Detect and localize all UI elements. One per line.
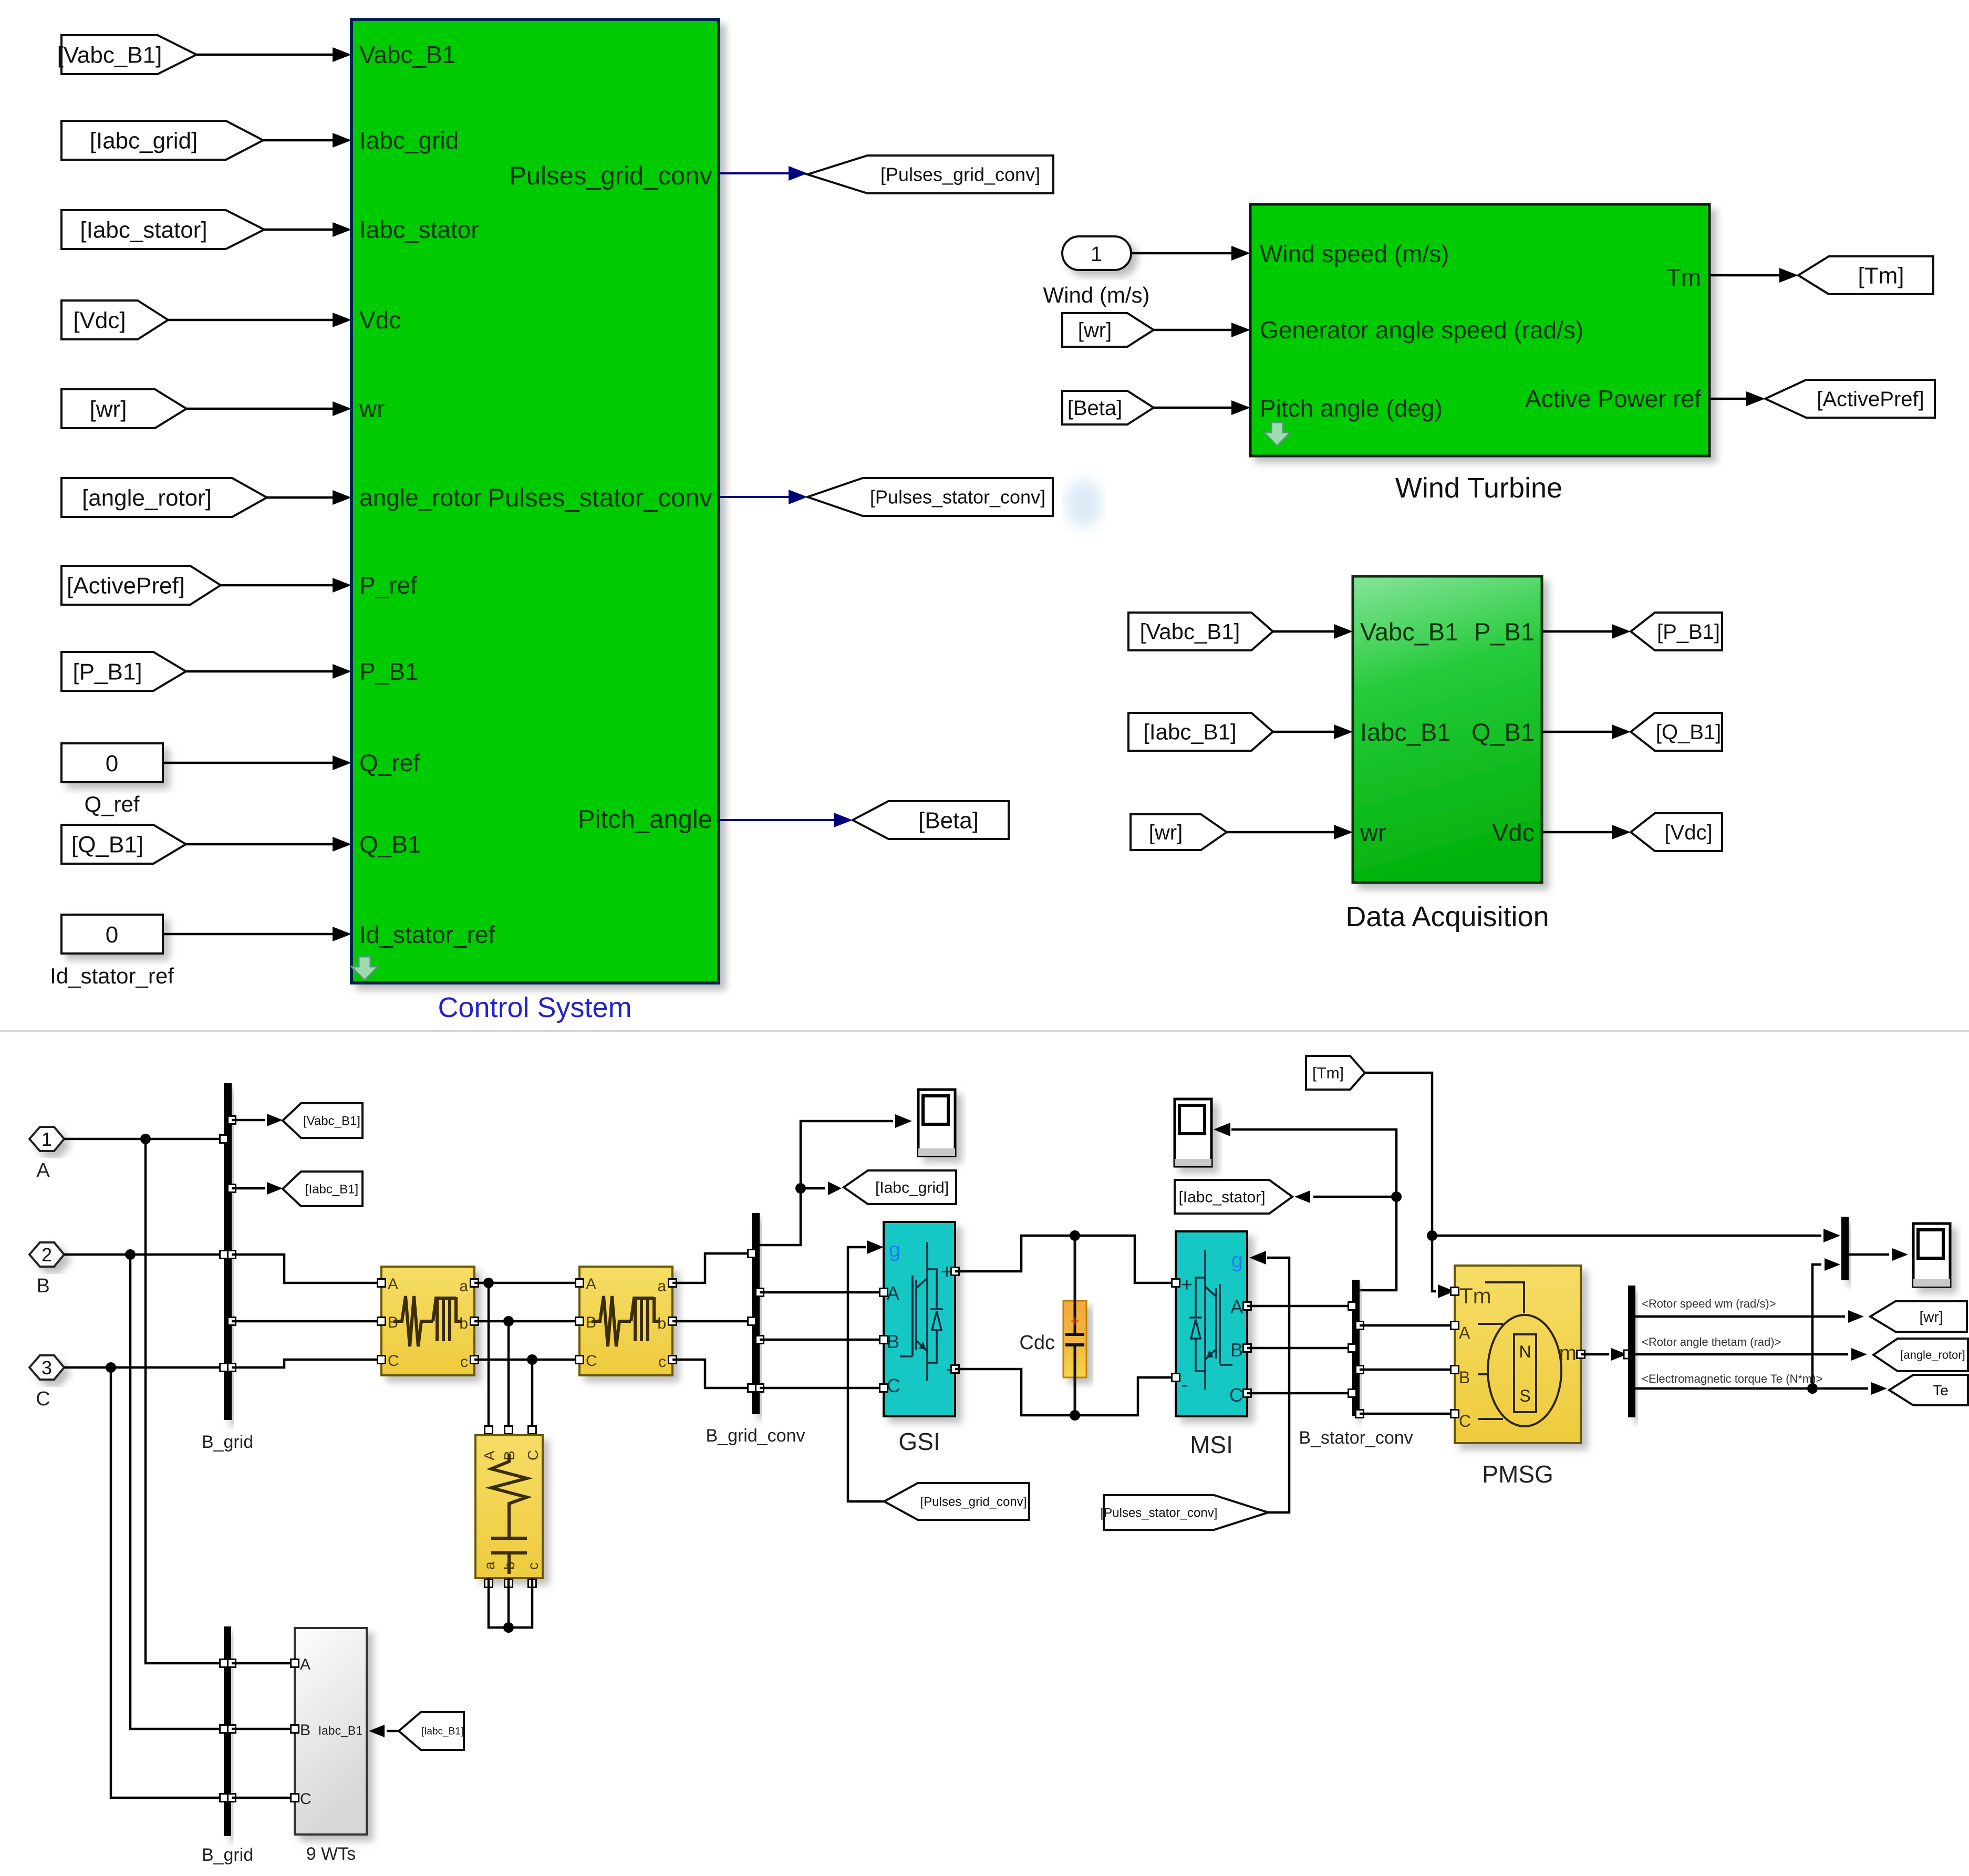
wire [Vdc] to Control System	[168, 319, 333, 322]
svg-text:C: C	[1459, 1412, 1471, 1431]
goto tag [Vabc_B1] small	[283, 1103, 362, 1138]
wire a down to filter	[488, 1283, 490, 1426]
port connector	[485, 1580, 493, 1588]
from tag [Beta] to Wind Turbine	[1062, 391, 1154, 424]
port connector	[220, 1251, 228, 1259]
port connector	[1451, 1322, 1459, 1330]
port connector	[748, 1318, 756, 1325]
port connector	[1624, 1350, 1632, 1359]
wire [Beta] to Wind Turbine	[1154, 407, 1231, 409]
port connector	[669, 1356, 677, 1364]
wire bus to PMSG B	[1360, 1369, 1455, 1371]
svg-text:0: 0	[106, 751, 118, 776]
svg-text:wr: wr	[359, 395, 385, 422]
svg-text:9 WTs: 9 WTs	[306, 1844, 356, 1864]
port connector	[1451, 1366, 1459, 1374]
svg-text:[wr]: [wr]	[1919, 1309, 1943, 1325]
subsystem block Wind Turbine	[1250, 204, 1709, 456]
wire meas to [Iabc_grid]	[801, 1187, 825, 1190]
svg-text:[Vabc_B1]: [Vabc_B1]	[1140, 619, 1240, 644]
wire [Pulses_stator_conv] to MSI g	[1267, 1258, 1289, 1512]
port connector	[220, 1794, 228, 1802]
svg-text:[Beta]: [Beta]	[918, 807, 979, 833]
wire meas to [Iabc_stator]	[1313, 1196, 1396, 1198]
wire b down to filter	[507, 1321, 510, 1426]
svg-text:Iabc_B1: Iabc_B1	[318, 1724, 362, 1737]
port connector	[378, 1356, 386, 1364]
from tag [Q_B1]	[61, 825, 186, 864]
goto tag [Iabc_B1] small	[283, 1172, 362, 1206]
port connector	[528, 1426, 536, 1434]
wire junction	[125, 1249, 136, 1260]
svg-text:[Tm]: [Tm]	[1312, 1065, 1344, 1082]
port connector	[951, 1268, 959, 1276]
wire junction	[795, 1183, 806, 1194]
wire bus to PMSG A	[1360, 1324, 1455, 1327]
goto tag Te	[1889, 1375, 1968, 1405]
svg-text:c: c	[460, 1353, 468, 1371]
wire T2 b to B_grid_conv	[672, 1320, 752, 1323]
inport 2 (B)	[29, 1242, 64, 1267]
port connector	[505, 1426, 513, 1434]
wire bus to 9WTs B	[232, 1728, 295, 1730]
subsystem block 9 WTs	[295, 1628, 367, 1834]
svg-text:Id_stator_ref: Id_stator_ref	[359, 921, 495, 948]
wire c down to filter	[531, 1360, 534, 1426]
wire [Pulses_grid_conv] to GSI g	[848, 1247, 884, 1501]
port connector	[748, 1250, 756, 1258]
from tag [P_B1]	[61, 652, 186, 691]
wire [Vabc_B1] to Data Acquisition	[1273, 630, 1335, 633]
wire GSI - to MSI -	[955, 1369, 1176, 1415]
wire [Iabc_B1] to 9WTs	[387, 1730, 399, 1733]
svg-text:Pulses_grid_conv: Pulses_grid_conv	[509, 162, 712, 190]
svg-text:Te: Te	[1933, 1382, 1949, 1398]
svg-text:1: 1	[42, 1128, 52, 1150]
svg-text:a: a	[657, 1278, 666, 1295]
inport 1 (A)	[29, 1127, 64, 1151]
wire B_grid_conv to GSI C	[760, 1387, 884, 1390]
port connector	[1356, 1410, 1364, 1418]
port connector	[220, 1135, 228, 1143]
goto tag [Q_B1]	[1631, 713, 1722, 751]
svg-text:A: A	[1459, 1323, 1470, 1342]
svg-text:P_ref: P_ref	[359, 572, 417, 599]
port connector	[1356, 1366, 1364, 1374]
svg-text:[Iabc_grid]: [Iabc_grid]	[875, 1179, 949, 1197]
svg-text:a: a	[481, 1561, 498, 1570]
svg-text:b: b	[657, 1315, 666, 1332]
goto tag [P_B1]	[1631, 613, 1722, 650]
svg-text:[Iabc_B1]: [Iabc_B1]	[305, 1182, 358, 1196]
svg-text:<Electromagnetic torque Te (N*: <Electromagnetic torque Te (N*m)>	[1642, 1372, 1822, 1385]
wire bus to PMSG C	[1360, 1413, 1455, 1415]
wire junction	[106, 1362, 116, 1373]
wire Q_B1 to goto	[1542, 731, 1612, 733]
svg-text:Generator angle speed (rad/s): Generator angle speed (rad/s)	[1260, 316, 1583, 344]
port connector	[669, 1318, 677, 1325]
goto tag [angle_rotor]	[1873, 1339, 1968, 1371]
port connector	[228, 1364, 236, 1372]
mux	[1841, 1217, 1849, 1280]
port connector	[1451, 1410, 1459, 1418]
port connector	[228, 1116, 236, 1124]
goto tag [Vdc]	[1631, 813, 1722, 851]
port connector	[228, 1794, 236, 1802]
wire B_grid_conv to GSI A	[760, 1291, 884, 1294]
wire junction	[140, 1134, 151, 1144]
highlight glow	[1066, 479, 1102, 527]
mask badge Wind Turbine	[1264, 422, 1290, 446]
from tag [Vdc]	[61, 300, 168, 339]
svg-text:B_stator_conv: B_stator_conv	[1299, 1428, 1413, 1448]
wire [Q_B1] to Control System	[186, 843, 333, 846]
constant Q_ref value 0	[61, 743, 163, 782]
port connector	[1243, 1344, 1251, 1352]
svg-text:A: A	[481, 1450, 498, 1460]
port connector	[528, 1580, 536, 1588]
bus B_grid_conv	[752, 1213, 760, 1414]
port connector	[291, 1725, 299, 1733]
wire T2 a to B_grid_conv	[672, 1253, 752, 1283]
wire mux to scope	[1849, 1253, 1889, 1256]
wire T1 c to T2 C	[474, 1359, 579, 1361]
svg-text:[wr]: [wr]	[90, 396, 127, 422]
wire junction	[1391, 1191, 1402, 1202]
wire [Iabc_B1] to Data Acquisition	[1273, 731, 1335, 733]
PMSG machine icon	[1485, 1282, 1524, 1313]
from tag [Vabc_B1] to Data Acquisition	[1128, 613, 1273, 650]
svg-text:0: 0	[106, 922, 118, 948]
GSI IGBT icon	[900, 1242, 943, 1381]
from tag [wr]	[61, 389, 186, 428]
port connector	[1577, 1351, 1585, 1359]
port connector	[576, 1356, 584, 1364]
wire Te to goto Te	[1635, 1387, 1868, 1390]
wire junction	[503, 1622, 514, 1633]
svg-text:[Iabc_B1]: [Iabc_B1]	[1143, 720, 1236, 744]
port connector	[220, 1660, 228, 1667]
port connector	[748, 1384, 756, 1392]
port connector	[880, 1384, 888, 1392]
wire Active Power ref to goto	[1709, 398, 1747, 400]
port connector	[1243, 1302, 1251, 1310]
wire Vdc to goto	[1542, 831, 1612, 834]
wire P_B1 to goto	[1542, 630, 1612, 633]
port connector	[756, 1336, 764, 1344]
svg-text:[Q_B1]: [Q_B1]	[1656, 721, 1722, 744]
svg-text:B_grid: B_grid	[202, 1845, 253, 1865]
wire port 1 to B_grid	[64, 1138, 224, 1141]
port connector	[1356, 1322, 1364, 1330]
wire T2 c to B_grid_conv	[672, 1360, 752, 1388]
from tag [Iabc_B1] to Data Acquisition	[1128, 713, 1273, 751]
wire phase B down to lower B_grid	[130, 1255, 224, 1729]
wire bus to 9WTs A	[232, 1662, 295, 1665]
port connector	[378, 1318, 386, 1325]
port connector	[220, 1725, 228, 1733]
constant Id_stator_ref value 0	[61, 915, 163, 953]
wire Pitch_angle output	[719, 819, 834, 821]
svg-text:Q_B1: Q_B1	[1471, 718, 1535, 746]
mask badge Control System	[351, 957, 378, 980]
from tag [Iabc_grid]	[61, 121, 263, 160]
svg-text:Vabc_B1: Vabc_B1	[359, 41, 455, 68]
subsystem block Control System	[351, 19, 719, 983]
port connector	[669, 1279, 677, 1287]
bus B_stator_conv	[1352, 1280, 1360, 1416]
goto tag [wr] output	[1870, 1301, 1967, 1332]
svg-text:+: +	[1181, 1274, 1193, 1296]
from tag [ActivePref]	[61, 566, 221, 605]
svg-text:1: 1	[1091, 243, 1102, 266]
from tag [wr] to Data Acquisition	[1131, 814, 1227, 850]
transformer T1 (grid)	[381, 1267, 474, 1375]
svg-text:Tm: Tm	[1666, 264, 1701, 291]
svg-text:Q_B1: Q_B1	[359, 831, 421, 858]
svg-text:Data Acquisition: Data Acquisition	[1345, 901, 1549, 932]
svg-text:Q_ref: Q_ref	[359, 749, 420, 776]
wire MSI C to bus	[1247, 1392, 1352, 1395]
port connector	[228, 1185, 236, 1193]
port connector	[471, 1356, 479, 1364]
port connector	[228, 1725, 236, 1733]
wire phase C down to lower B_grid	[111, 1367, 224, 1798]
port connector	[1349, 1344, 1356, 1352]
goto tag [Pulses_grid_conv]	[807, 156, 1053, 193]
svg-text:[Iabc_stator]: [Iabc_stator]	[1178, 1189, 1265, 1206]
wire B_grid to T1 B	[232, 1320, 381, 1323]
wire Tm branch to mux	[1432, 1235, 1821, 1237]
goto tag [Pulses_stator_conv]	[807, 478, 1053, 516]
wire B_grid to [Iabc_B1]	[232, 1187, 265, 1190]
port connector	[576, 1279, 584, 1287]
svg-text:Wind speed (m/s): Wind speed (m/s)	[1260, 240, 1449, 267]
svg-text:wr: wr	[1360, 818, 1386, 846]
svg-text:-: -	[1181, 1374, 1188, 1396]
wire junction	[483, 1278, 494, 1288]
port connector	[951, 1365, 959, 1373]
from tag [Iabc_B1] to 9WTs	[399, 1712, 464, 1750]
wire MSI B to bus	[1247, 1347, 1352, 1350]
wire [Tm] to PMSG Tm	[1365, 1073, 1436, 1291]
svg-text:[wr]: [wr]	[1078, 319, 1112, 342]
wire junction	[1427, 1230, 1437, 1241]
svg-text:Pulses_stator_conv: Pulses_stator_conv	[488, 484, 712, 512]
wire PMSG m to demux	[1581, 1353, 1609, 1356]
subsystem block Data Acquisition	[1353, 576, 1542, 883]
wire B_grid to T1 A	[232, 1255, 381, 1283]
wire junction	[1070, 1410, 1080, 1421]
svg-text:B: B	[1230, 1339, 1243, 1361]
three-phase RLC filter block	[475, 1435, 543, 1578]
wire junction	[1807, 1383, 1818, 1394]
svg-text:Wind Turbine: Wind Turbine	[1395, 472, 1562, 504]
svg-text:[Iabc_grid]: [Iabc_grid]	[90, 128, 198, 153]
wire filter ground tie	[489, 1578, 532, 1628]
svg-text:[wr]: [wr]	[1149, 821, 1183, 844]
svg-text:g: g	[1231, 1249, 1243, 1272]
svg-text:A: A	[887, 1282, 899, 1304]
svg-text:c: c	[658, 1353, 666, 1371]
wire junction	[527, 1354, 537, 1365]
wire phase A down to lower B_grid	[146, 1139, 224, 1663]
svg-text:c: c	[525, 1562, 541, 1570]
svg-text:Id_stator_ref: Id_stator_ref	[50, 963, 174, 988]
svg-text:3: 3	[42, 1357, 52, 1379]
port connector	[1349, 1390, 1356, 1397]
wire [wr] to Wind Turbine	[1154, 329, 1231, 331]
separator line	[0, 1030, 1969, 1032]
port connector	[228, 1251, 236, 1259]
svg-text:A: A	[300, 1656, 310, 1673]
from tag [angle_rotor]	[61, 478, 267, 517]
MSI IGBT icon (mirrored)	[1189, 1250, 1232, 1390]
constant Wind (m/s) value 1	[1062, 236, 1131, 270]
svg-text:+: +	[1071, 1313, 1079, 1329]
port connector	[1172, 1374, 1180, 1382]
svg-text:B: B	[887, 1331, 899, 1352]
svg-text:C: C	[586, 1352, 597, 1370]
svg-text:Pitch_angle: Pitch_angle	[578, 805, 712, 834]
svg-text:A: A	[586, 1276, 596, 1293]
capacitor Cdc	[1063, 1301, 1086, 1377]
machine block PMSG	[1455, 1266, 1581, 1443]
from tag [Vabc_B1]	[61, 35, 196, 74]
svg-text:Pitch angle (deg): Pitch angle (deg)	[1260, 395, 1443, 422]
svg-text:Q_ref: Q_ref	[84, 792, 139, 816]
inport 3 (C)	[29, 1355, 64, 1380]
svg-text:N: N	[1519, 1342, 1531, 1361]
svg-text:B: B	[36, 1275, 49, 1297]
wire [Iabc_grid] to Control System	[263, 139, 333, 142]
goto tag [Tm]	[1798, 256, 1933, 294]
wire T1 b to T2 B	[474, 1320, 579, 1323]
from tag [wr] to Wind Turbine	[1062, 313, 1154, 347]
wire filter b stub	[507, 1578, 510, 1628]
wire [P_B1] to Control System	[186, 670, 333, 673]
wire [wr] to Data Acquisition	[1227, 831, 1335, 834]
port connector	[1349, 1302, 1356, 1310]
wire [Vabc_B1] to Control System	[196, 54, 333, 56]
svg-text:[Q_B1]: [Q_B1]	[71, 832, 143, 857]
svg-text:[ActivePref]: [ActivePref]	[1817, 388, 1924, 411]
from tag [Pulses_stator_conv]	[1104, 1495, 1268, 1530]
svg-text:Tm: Tm	[1459, 1283, 1491, 1308]
svg-text:C: C	[388, 1352, 399, 1370]
svg-text:PMSG: PMSG	[1482, 1460, 1553, 1488]
svg-text:[ActivePref]: [ActivePref]	[67, 573, 185, 598]
port connector	[880, 1289, 888, 1297]
wire [wr] to Control System	[186, 408, 333, 410]
svg-text:b: b	[459, 1315, 468, 1332]
port connector	[291, 1794, 299, 1802]
wire Tm to goto	[1709, 274, 1780, 277]
bus B_grid lower	[224, 1626, 231, 1836]
svg-text:B: B	[300, 1722, 310, 1739]
wire Pulses_grid_conv output	[719, 172, 790, 174]
wire Q_ref to Control System	[163, 762, 333, 764]
svg-text:Iabc_B1: Iabc_B1	[1360, 718, 1450, 746]
svg-text:Iabc_stator: Iabc_stator	[359, 216, 479, 243]
svg-text:angle_rotor: angle_rotor	[359, 484, 482, 511]
svg-text:A: A	[36, 1159, 50, 1181]
svg-text:B_grid_conv: B_grid_conv	[706, 1426, 805, 1446]
scope torque	[1913, 1224, 1950, 1287]
svg-text:[Iabc_stator]: [Iabc_stator]	[80, 217, 207, 243]
wire GSI + to MSI +	[955, 1236, 1176, 1283]
svg-text:Cdc: Cdc	[1019, 1332, 1055, 1354]
port connector	[576, 1318, 584, 1325]
port connector	[471, 1318, 479, 1325]
port connector	[378, 1279, 386, 1287]
port connector	[291, 1660, 299, 1667]
wire Id_stator_ref to Control System	[163, 933, 333, 936]
svg-text:<Rotor speed wm (rad/s)>: <Rotor speed wm (rad/s)>	[1642, 1297, 1776, 1310]
svg-text:[Vabc_B1]: [Vabc_B1]	[57, 42, 162, 68]
svg-text:B: B	[1459, 1368, 1470, 1387]
svg-text:[Iabc_B1]: [Iabc_B1]	[421, 1726, 463, 1737]
port connector	[1243, 1390, 1251, 1397]
port connector	[228, 1660, 236, 1667]
goto tag [Iabc_stator]	[1175, 1180, 1292, 1214]
svg-text:Vdc: Vdc	[359, 306, 401, 334]
goto tag [Beta]	[853, 801, 1009, 839]
converter block GSI	[884, 1222, 955, 1416]
svg-text:S: S	[1519, 1386, 1530, 1405]
svg-text:C: C	[1229, 1384, 1243, 1406]
wire bus to 9WTs C	[232, 1797, 295, 1799]
svg-text:[Pulses_grid_conv]: [Pulses_grid_conv]	[880, 164, 1040, 185]
from tag [Tm] bottom	[1306, 1056, 1365, 1090]
wire [Iabc_stator] to Control System	[264, 229, 333, 231]
wire port 2 to B_grid	[64, 1253, 224, 1256]
svg-text:Vdc: Vdc	[1492, 818, 1535, 846]
svg-text:g: g	[889, 1238, 900, 1261]
svg-text:P_B1: P_B1	[1474, 618, 1535, 646]
wire MSI A to bus	[1247, 1305, 1352, 1308]
svg-text:[Vdc]: [Vdc]	[73, 307, 126, 333]
port connector	[485, 1426, 493, 1434]
svg-text:[Vdc]: [Vdc]	[1664, 821, 1712, 844]
port connector	[880, 1336, 888, 1344]
svg-text:A: A	[388, 1276, 398, 1293]
svg-text:C: C	[525, 1450, 541, 1460]
goto tag [ActivePref]	[1765, 380, 1935, 418]
bus B_grid	[224, 1083, 232, 1420]
scope grid	[918, 1090, 955, 1156]
wire B_grid_conv meas to scope	[760, 1121, 893, 1245]
transformer T2 (converter)	[579, 1267, 672, 1375]
wire junction	[1070, 1230, 1080, 1241]
port connector	[1172, 1279, 1180, 1287]
svg-text:2: 2	[42, 1244, 52, 1266]
svg-text:[Vabc_B1]: [Vabc_B1]	[303, 1114, 360, 1128]
svg-text:[P_B1]: [P_B1]	[1657, 620, 1720, 644]
port connector	[228, 1318, 236, 1325]
svg-text:[Beta]: [Beta]	[1068, 397, 1123, 420]
demux bus selector	[1628, 1286, 1635, 1417]
svg-text:[angle_rotor]: [angle_rotor]	[1900, 1349, 1965, 1362]
wire wm to [wr]	[1635, 1315, 1845, 1318]
svg-text:a: a	[459, 1278, 468, 1295]
svg-text:C: C	[36, 1388, 50, 1410]
wire thetam to [angle_rotor]	[1635, 1353, 1848, 1356]
wire junction	[503, 1316, 514, 1326]
svg-text:[Tm]: [Tm]	[1858, 263, 1904, 288]
svg-text:Iabc_grid: Iabc_grid	[359, 127, 459, 154]
wire [angle_rotor] to Control System	[267, 496, 333, 499]
